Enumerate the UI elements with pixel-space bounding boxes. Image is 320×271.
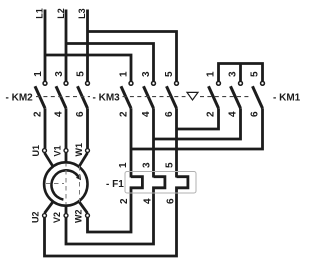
KM1 pin3 terminal circle: [239, 81, 243, 85]
terminal V1 circle: [64, 149, 68, 153]
motor lead V1 stub: [65, 153, 68, 164]
terminal U1 circle: [43, 149, 47, 153]
KM2 pin1 terminal circle: [43, 81, 47, 85]
wire KM1 pin4 to node at KM3 pin4: [154, 108, 241, 139]
KM1 contact 3-4 blade: [231, 86, 241, 108]
svg-text:- KM1: - KM1: [273, 92, 300, 103]
KM2 pin5 terminal circle: [86, 81, 90, 85]
wire L1 branch to KM3 pin1: [45, 55, 131, 81]
node star bus KM1 top bar: [219, 64, 263, 82]
svg-text:W2: W2: [74, 210, 84, 224]
star symbol triangle on linkage: [187, 92, 198, 100]
F1 heater element 2: [154, 177, 165, 189]
motor lead V2 stub: [65, 205, 68, 214]
wire L3 vertical: [86, 10, 89, 82]
contactor KM1: [209, 81, 265, 108]
wire KM3 pin4 down to F1: [152, 108, 155, 177]
svg-text:3: 3: [141, 71, 152, 77]
svg-text:V2: V2: [52, 212, 62, 223]
terminal W1 circle: [86, 149, 90, 153]
KM1 contact 1-2 blade: [209, 86, 219, 108]
KM3 contact 1-2 blade: [121, 86, 131, 108]
svg-text:- KM3: - KM3: [93, 92, 121, 103]
motor shaft dashed centerline vertical: [65, 162, 67, 206]
svg-text:4: 4: [228, 111, 239, 117]
wire L2 vertical: [65, 10, 68, 82]
svg-text:2: 2: [119, 198, 130, 204]
svg-text:- F1: - F1: [106, 179, 124, 190]
svg-text:5: 5: [250, 71, 261, 77]
motor rotation arrowhead: [76, 174, 81, 180]
F1 heater element 3: [177, 177, 188, 189]
motor M circle: [44, 162, 87, 205]
svg-text:- KM2: - KM2: [6, 92, 34, 103]
KM3 contact 3-4 blade: [144, 86, 154, 108]
svg-text:U1: U1: [31, 145, 41, 157]
svg-text:3: 3: [54, 71, 65, 77]
svg-text:U2: U2: [31, 211, 41, 223]
svg-text:V1: V1: [53, 145, 63, 156]
svg-text:5: 5: [164, 71, 175, 77]
svg-text:1: 1: [206, 71, 217, 77]
F1 heater element 1: [131, 177, 142, 189]
svg-text:1: 1: [33, 71, 44, 77]
motor lead U2 diagonal: [45, 202, 53, 213]
terminal W2 circle: [86, 214, 90, 218]
KM1 pin1 terminal circle: [217, 81, 221, 85]
terminal V2 circle: [64, 214, 68, 218]
svg-text:6: 6: [166, 198, 177, 204]
wire L2 branch to KM3 pin3: [66, 44, 154, 82]
KM1 contact 5-6 blade: [253, 86, 263, 108]
wire L1 vertical: [44, 10, 47, 82]
contactor KM3: [121, 81, 178, 108]
motor dashed W-lead axis: [79, 166, 81, 202]
KM1 pin5 terminal circle: [261, 81, 265, 85]
svg-text:6: 6: [164, 111, 175, 117]
svg-text:4: 4: [141, 111, 152, 117]
svg-text:3: 3: [228, 71, 239, 77]
svg-text:L3: L3: [77, 8, 87, 19]
mechanical linkage dashed line KM2: [36, 96, 90, 98]
svg-text:4: 4: [143, 198, 154, 204]
KM2 pin3 terminal circle: [64, 81, 68, 85]
KM2 contact 1-2 blade: [35, 86, 45, 108]
KM2 contact 5-6 blade: [78, 86, 88, 108]
wire KM1 pin3 stub: [239, 64, 242, 82]
KM3 contact 5-6 blade: [167, 86, 177, 108]
svg-text:6: 6: [75, 111, 86, 117]
wire L3 branch to KM3 pin5: [88, 32, 177, 82]
wire KM3 pin2 down to F1: [130, 108, 133, 177]
svg-text:5: 5: [76, 71, 87, 77]
svg-text:L2: L2: [56, 8, 66, 19]
motor dashed horizontal centerline: [46, 183, 64, 185]
mechanical linkage dashed line KM3: [123, 96, 186, 98]
svg-text:3: 3: [142, 162, 153, 168]
wire F1 pin6 to U2: [45, 189, 177, 256]
wire KM3 pin6 down to F1: [175, 108, 178, 177]
svg-text:2: 2: [119, 111, 130, 117]
motor lead W2 diagonal: [79, 202, 87, 213]
svg-text:5: 5: [165, 162, 176, 168]
svg-text:6: 6: [250, 111, 261, 117]
svg-text:1: 1: [119, 71, 130, 77]
motor lead U1 diagonal: [45, 153, 53, 166]
svg-text:W1: W1: [74, 143, 84, 157]
mechanical linkage dashed line KM1: [200, 96, 252, 98]
svg-text:2: 2: [33, 111, 44, 117]
motor lead W1 diagonal: [79, 153, 87, 166]
wire F1 pin4 to V2: [66, 189, 154, 244]
motor rotation arrow arc: [51, 170, 78, 199]
svg-text:4: 4: [54, 111, 65, 117]
KM3 pin3 terminal circle: [152, 81, 156, 85]
svg-text:2: 2: [206, 111, 217, 117]
terminal U2 circle: [43, 214, 47, 218]
wire F1 pin2 to W2: [88, 189, 132, 232]
wire KM2 pin6 to W1: [86, 108, 89, 148]
overload relay F1 box: [125, 172, 196, 194]
KM3 pin1 terminal circle: [129, 81, 133, 85]
wire KM1 pin6 to node at KM3 pin2: [131, 108, 263, 149]
KM3 pin5 terminal circle: [175, 81, 179, 85]
wire KM2 pin2 to U1: [44, 108, 47, 148]
svg-text:L1: L1: [35, 8, 45, 19]
svg-text:1: 1: [118, 162, 129, 168]
wire KM1 pin2 to node at KM3 pin6: [177, 108, 219, 129]
contactor KM2: [35, 81, 89, 108]
wire KM2 pin4 to V1: [65, 108, 68, 148]
KM2 contact 3-4 blade: [56, 86, 66, 108]
